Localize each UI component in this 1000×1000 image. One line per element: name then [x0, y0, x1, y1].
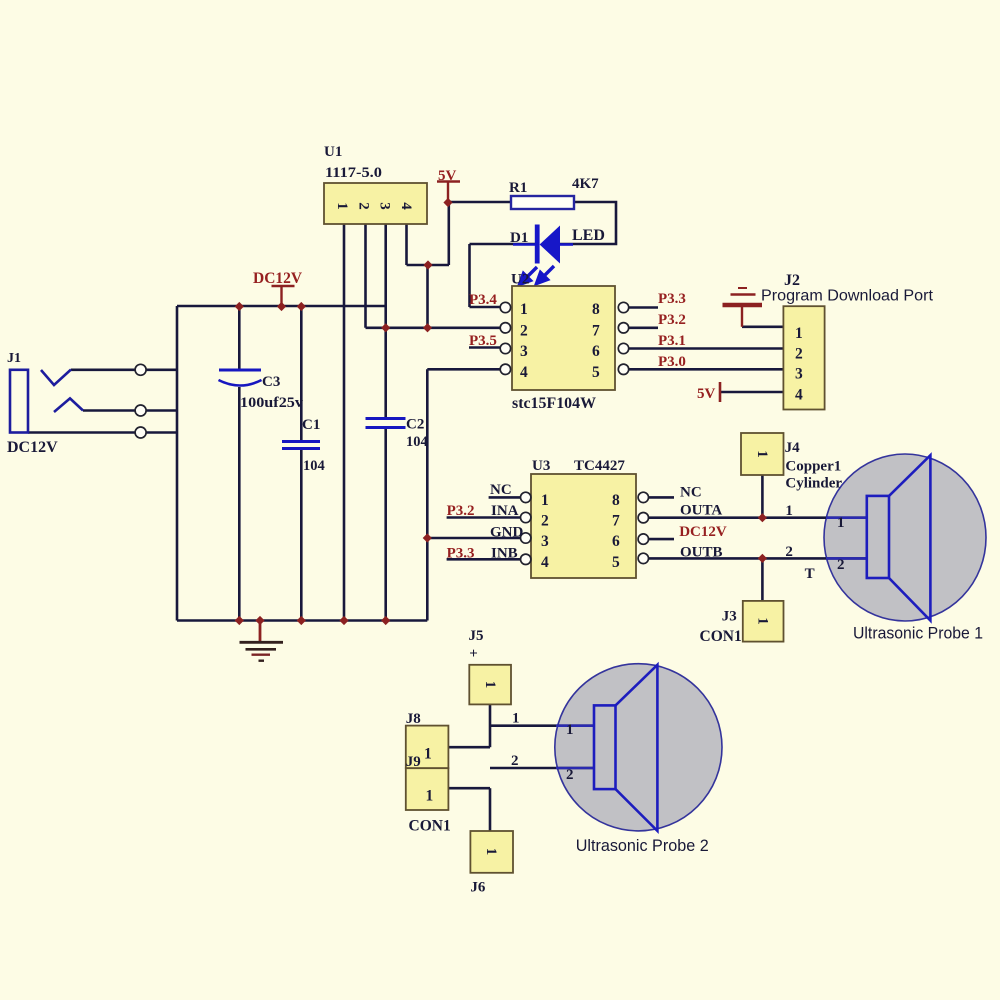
svg-text:8: 8 — [592, 301, 600, 318]
svg-text:1: 1 — [541, 492, 549, 509]
svg-text:DC12V: DC12V — [7, 439, 58, 456]
svg-text:1: 1 — [837, 515, 845, 531]
svg-text:1117-5.0: 1117-5.0 — [325, 165, 382, 181]
svg-text:J2: J2 — [784, 272, 800, 289]
svg-text:P3.2: P3.2 — [447, 503, 475, 519]
svg-text:1: 1 — [795, 325, 803, 342]
svg-text:6: 6 — [612, 533, 620, 550]
svg-text:2: 2 — [356, 202, 372, 210]
svg-text:C3: C3 — [262, 374, 280, 390]
svg-text:Ultrasonic Probe 1: Ultrasonic Probe 1 — [853, 625, 983, 643]
svg-text:NC: NC — [680, 485, 702, 501]
svg-text:2: 2 — [837, 557, 845, 573]
svg-text:1: 1 — [424, 746, 432, 763]
svg-text:P3.1: P3.1 — [658, 333, 686, 349]
svg-text:U1: U1 — [324, 144, 342, 160]
svg-text:J8: J8 — [406, 711, 421, 727]
svg-text:P3.2: P3.2 — [658, 312, 686, 328]
svg-text:J5: J5 — [469, 628, 484, 644]
svg-text:J4: J4 — [785, 440, 801, 456]
svg-text:Copper1: Copper1 — [785, 459, 841, 475]
svg-text:1: 1 — [482, 681, 498, 689]
svg-text:J9: J9 — [406, 754, 421, 770]
svg-text:TC4427: TC4427 — [574, 458, 625, 474]
svg-text:4: 4 — [795, 387, 803, 404]
svg-text:Ultrasonic Probe 2: Ultrasonic Probe 2 — [576, 837, 709, 855]
svg-text:P3.5: P3.5 — [469, 333, 497, 349]
svg-text:J1: J1 — [7, 351, 21, 366]
svg-text:C1: C1 — [302, 417, 320, 433]
svg-text:1: 1 — [755, 617, 771, 625]
svg-text:+: + — [469, 646, 478, 662]
svg-text:Cylinder: Cylinder — [785, 475, 842, 491]
svg-text:4K7: 4K7 — [572, 176, 599, 192]
svg-text:LED: LED — [572, 227, 605, 244]
svg-text:D1: D1 — [510, 230, 528, 246]
svg-text:INA: INA — [491, 503, 519, 519]
svg-text:J3: J3 — [722, 609, 737, 625]
svg-text:5: 5 — [612, 554, 620, 571]
svg-text:1: 1 — [512, 711, 520, 727]
svg-text:U3: U3 — [532, 458, 550, 474]
svg-text:INB: INB — [491, 546, 518, 562]
svg-text:5V: 5V — [438, 168, 457, 184]
svg-text:Program Download Port: Program Download Port — [761, 288, 934, 305]
svg-text:P3.0: P3.0 — [658, 354, 686, 370]
svg-text:3: 3 — [377, 202, 393, 210]
svg-text:C2: C2 — [406, 417, 424, 433]
svg-text:2: 2 — [520, 323, 528, 340]
svg-text:CON1: CON1 — [700, 628, 742, 645]
svg-text:1: 1 — [334, 202, 350, 210]
svg-text:5V: 5V — [697, 386, 716, 402]
svg-text:2: 2 — [785, 544, 793, 560]
svg-text:4: 4 — [541, 554, 549, 571]
svg-text:2: 2 — [795, 346, 803, 363]
svg-text:3: 3 — [795, 366, 803, 383]
svg-text:NC: NC — [490, 482, 512, 498]
svg-text:OUTB: OUTB — [680, 545, 723, 561]
svg-text:T: T — [805, 566, 815, 582]
svg-text:DC12V: DC12V — [253, 270, 303, 287]
svg-text:5: 5 — [592, 364, 600, 381]
svg-text:7: 7 — [612, 513, 620, 530]
svg-text:100uf25v: 100uf25v — [240, 395, 304, 411]
svg-text:1: 1 — [566, 722, 574, 738]
svg-text:8: 8 — [612, 492, 620, 509]
svg-text:2: 2 — [566, 767, 574, 783]
svg-text:U2: U2 — [511, 272, 529, 288]
svg-text:4: 4 — [398, 202, 414, 210]
svg-text:1: 1 — [426, 788, 434, 805]
svg-text:2: 2 — [541, 513, 549, 530]
svg-text:DC12V: DC12V — [679, 524, 727, 540]
svg-text:4: 4 — [520, 364, 528, 381]
svg-text:6: 6 — [592, 343, 600, 360]
svg-text:P3.4: P3.4 — [469, 292, 497, 308]
svg-text:1: 1 — [785, 503, 793, 519]
svg-text:1: 1 — [754, 450, 770, 458]
svg-text:P3.3: P3.3 — [658, 291, 686, 307]
svg-text:J6: J6 — [470, 880, 486, 896]
svg-text:7: 7 — [592, 323, 600, 340]
svg-text:104: 104 — [303, 458, 325, 474]
svg-text:3: 3 — [541, 533, 549, 550]
svg-text:104: 104 — [406, 434, 428, 450]
svg-text:CON1: CON1 — [409, 818, 451, 835]
svg-text:1: 1 — [520, 301, 528, 318]
svg-text:P3.3: P3.3 — [447, 546, 475, 562]
svg-text:R1: R1 — [509, 180, 527, 196]
svg-text:3: 3 — [520, 343, 528, 360]
svg-text:2: 2 — [511, 753, 519, 769]
svg-text:GND: GND — [490, 525, 524, 541]
svg-text:OUTA: OUTA — [680, 503, 722, 519]
svg-text:1: 1 — [483, 848, 499, 856]
svg-text:stc15F104W: stc15F104W — [512, 395, 597, 412]
